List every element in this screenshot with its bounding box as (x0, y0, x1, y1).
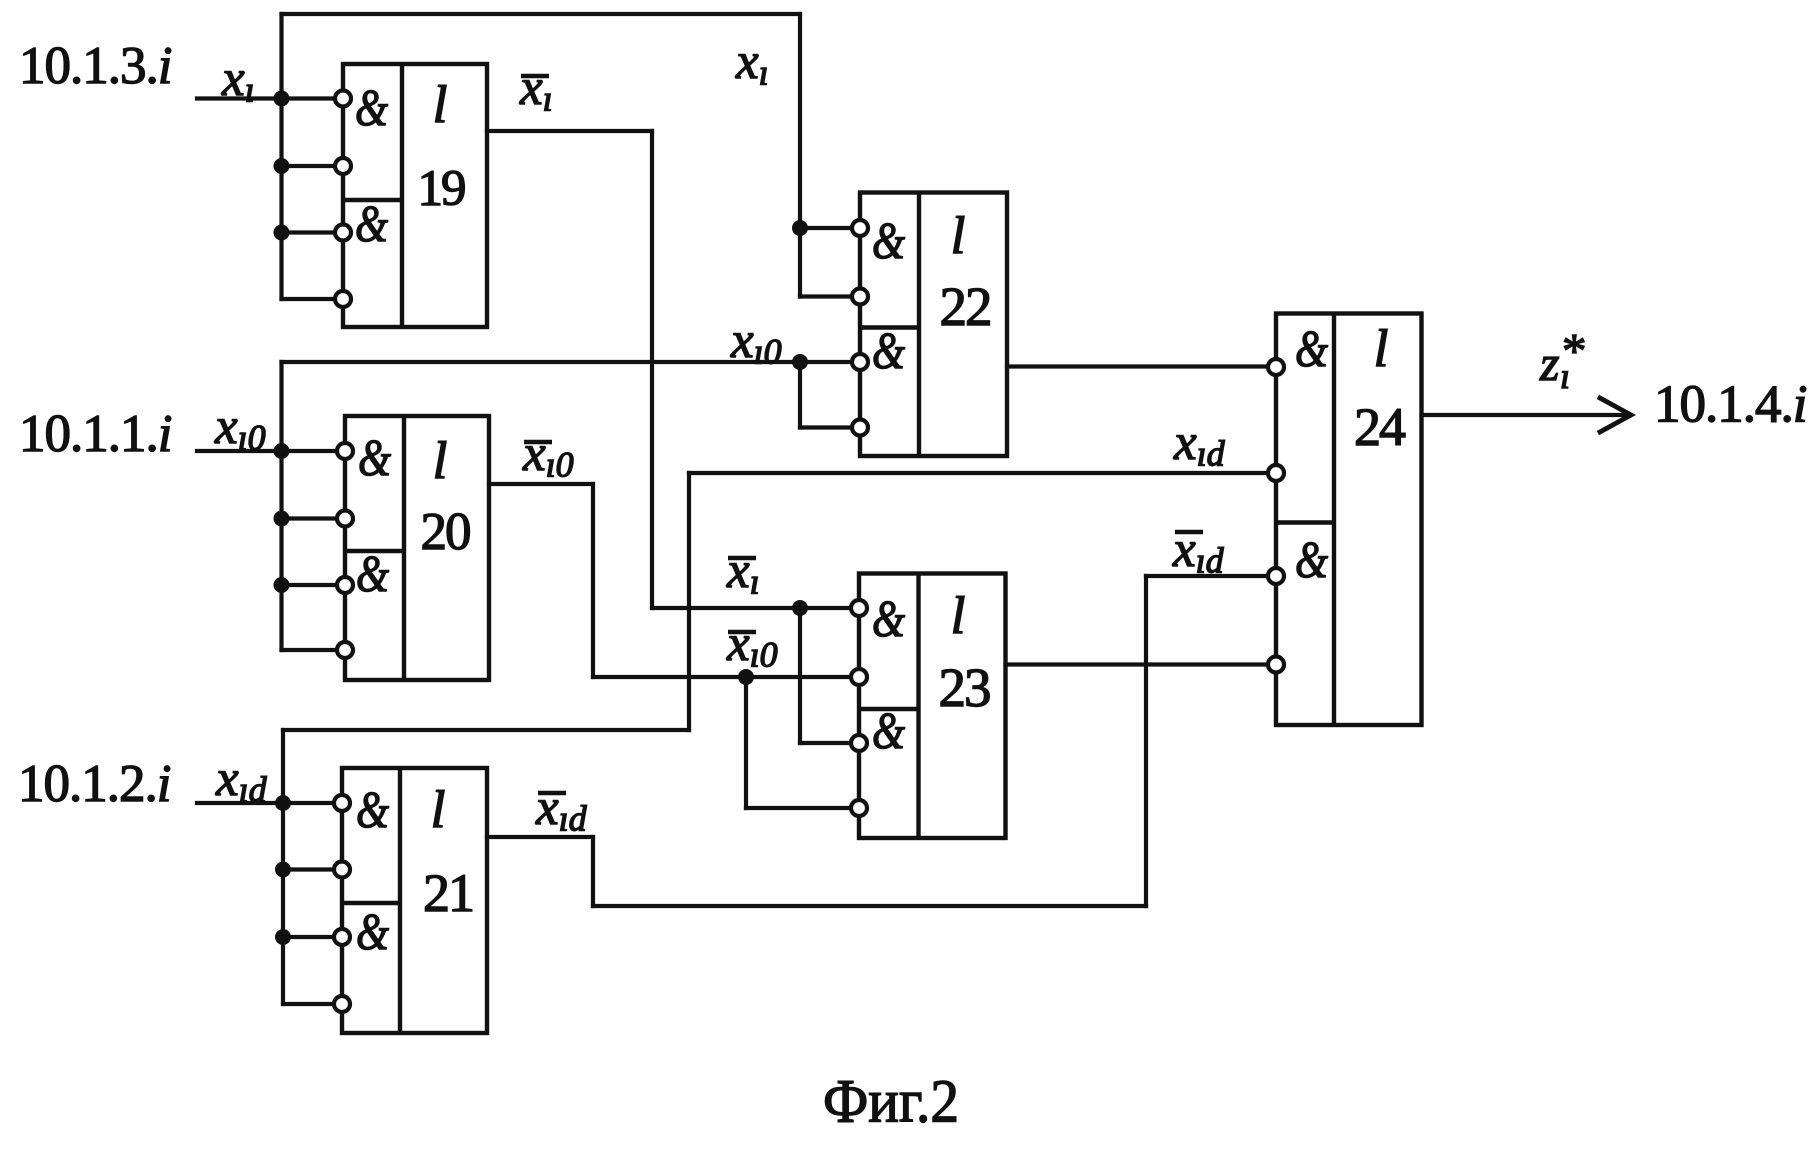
node junction dot: x_i bus / gate 19 pin 3 (274, 225, 290, 241)
gate 21: AND-OR logic element, box outline (342, 768, 487, 1033)
gate 19 pin 4 inversion bubble (335, 291, 351, 307)
gate 21 pin 4 inversion bubble (334, 996, 350, 1012)
wire net nx_i: elbow to gate 23 pin 3 (800, 741, 859, 745)
wire net x_i0: elbow to gate 20 pin 4 (282, 648, 346, 652)
wire net nx_id (inverted x_id): gate 21 output horizontal (487, 835, 593, 839)
gate 19: AND-OR logic element, box outline (343, 64, 487, 327)
wire net nx_i: vertical drop at x=800 below gate 23 pin 1 (798, 608, 802, 743)
gate 24 pin 2 inversion bubble (1268, 465, 1284, 481)
node junction dot: x_i drop / gate 22 pin 1 (792, 220, 808, 236)
gate 20 pin 3 inversion bubble (337, 577, 353, 593)
svg-text:l: l (433, 432, 448, 490)
wire net nx_i: vertical drop at x=652 (650, 131, 654, 608)
svg-text:l: l (431, 781, 446, 839)
gate 20 pin 2 inversion bubble (337, 511, 353, 527)
wire net x_id: vertical distribution bus at x=283 left of gate 21 (281, 730, 285, 1004)
wire net x_i: stub to gate 22 pin 1 (800, 226, 860, 230)
node junction dot: x_id bus / gate 21 pin 2 (275, 862, 291, 878)
wire net x_id: vertical rise at x=689 (687, 473, 691, 730)
svg-text:24: 24 (1354, 397, 1406, 457)
node junction dot: nx_i0 run / gate 23 pin 2 (738, 669, 754, 685)
wire net nx_i (inverted x_i): gate 19 output horizontal (487, 129, 652, 133)
svg-text:&: & (1295, 532, 1328, 589)
wire net x_id: horizontal run y=473 to gate 24 pin 2 (689, 471, 1276, 475)
wire net x_i0: stub to gate 20 pin 3 (282, 583, 346, 587)
wire net x_i0: vertical distribution bus at x=281.5 left of gate 20 (279, 362, 283, 650)
wire net x_i: vertical drop at x=800 into gate 22 (798, 14, 802, 297)
node junction dot: x_i0 bus / gate 20 pin 3 (274, 577, 290, 593)
wire net nx_id: horizontal run y=576 to gate 24 pin 3 (1146, 574, 1276, 578)
svg-text:23: 23 (939, 657, 991, 718)
svg-text:&: & (358, 430, 391, 487)
svg-text:20: 20 (421, 503, 471, 561)
svg-text:&: & (872, 323, 905, 380)
gate 23 pin 3 inversion bubble (851, 735, 867, 751)
gate 20 pin 4 inversion bubble (337, 642, 353, 658)
svg-text:l: l (1374, 320, 1389, 378)
gate 22 pin 4 inversion bubble (852, 420, 868, 436)
node junction dot: x_i bus / gate 19 pin 2 (274, 158, 290, 174)
gate 22 pin 2 inversion bubble (852, 289, 868, 305)
node junction dot: x_id bus / gate 21 pin 3 (275, 929, 291, 945)
wire net nx_id: vertical drop at x=593 (591, 837, 595, 906)
node junction dot: x_i bus / gate 19 pin 1 (274, 91, 290, 107)
svg-text:l: l (951, 587, 966, 645)
gate 24 pin 3 inversion bubble (1268, 568, 1284, 584)
svg-text:21: 21 (423, 863, 473, 923)
wire net x_i0: input horizontal from label 10.1.1.i to gate 20 pin 1 (197, 449, 345, 453)
gate 19 pin 1 inversion bubble (335, 91, 351, 107)
svg-text:22: 22 (940, 276, 991, 337)
wire net x_i: elbow to gate 19 pin 4 (282, 297, 344, 301)
wire net x_i: stub to gate 19 pin 3 (282, 230, 344, 234)
svg-text:&: & (356, 904, 389, 961)
node junction dot: x_id bus / gate 21 pin 1 (275, 795, 291, 811)
svg-text:&: & (872, 213, 905, 270)
wire output z_i* from gate 24 to node 10.1.4.i (1422, 413, 1629, 417)
wire net nx_i: horizontal run y=608 to gate 23 pin 1 (652, 606, 859, 610)
wire net nx_i0: vertical drop at x=593 (591, 484, 595, 677)
node junction dot: x_i0 bus / gate 20 pin 1 (274, 443, 290, 459)
svg-text:l: l (433, 76, 448, 134)
wire net x_i: vertical distribution bus at x=281.5 left of gate 19 (279, 14, 283, 299)
wire net x_i: top horizontal run to gate 22 (282, 12, 801, 16)
svg-text:&: & (872, 703, 905, 760)
wire net nx_i0: vertical drop at x=746 below gate 23 pin 2 (744, 677, 748, 808)
svg-text:&: & (356, 782, 389, 839)
svg-text:*: * (1562, 323, 1587, 378)
overbar of nx_id label at gate 21 output (538, 791, 566, 796)
gate 19 pin 2 inversion bubble (335, 158, 351, 174)
gate 23: AND-OR logic element, box outline (859, 574, 1006, 839)
gate 19 pin 3 inversion bubble (335, 225, 351, 241)
wire net x_i0: stub to gate 20 pin 2 (282, 516, 346, 520)
svg-text:z: z (1539, 335, 1559, 391)
wire net x_id: elbow to gate 21 pin 4 (283, 1002, 342, 1006)
wire net x_i0: vertical drop at x=800 below gate 22 pin 3 (798, 362, 802, 428)
wire net x_i: input horizontal from label 10.1.3.i to gate 19 pin 1 (197, 96, 343, 100)
gate 22 pin 3 inversion bubble (852, 354, 868, 370)
svg-text:19: 19 (418, 161, 466, 217)
wire net x_id: stub to gate 21 pin 2 (283, 867, 342, 871)
wire net nx_i0: horizontal run y=677 to gate 23 pin 2 (593, 675, 859, 679)
wire net x_i: elbow to gate 22 pin 2 (800, 294, 860, 298)
wire net x_id: input horizontal from label 10.1.2.i to gate 21 pin 1 (197, 801, 342, 805)
wire net x_i: stub to gate 19 pin 2 (282, 164, 344, 168)
overbar of nx_i label at gate 23 pin 1 (728, 556, 756, 561)
wire net x_id: horizontal run y=730 (283, 728, 689, 732)
gate 24 pin 4 inversion bubble (1268, 657, 1284, 673)
wire gate 23 output to gate 24 pin 4 (1006, 662, 1277, 666)
gate 21 pin 3 inversion bubble (334, 929, 350, 945)
wire net x_i0: horizontal run y=362 to gate 22 pin 3 (282, 360, 861, 364)
arrowhead of output z_i* (1600, 398, 1631, 432)
overbar of nx_i0 label at gate 23 pin 2 (728, 630, 756, 635)
svg-text:10.1.3.i: 10.1.3.i (19, 37, 172, 95)
node junction dot: nx_i run / gate 23 pin 1 (792, 600, 808, 616)
svg-text:&: & (1295, 321, 1328, 378)
svg-text:&: & (356, 546, 389, 603)
wire net nx_i0 (inverted x_i0): gate 20 output horizontal (489, 482, 593, 486)
overbar of nx_id label at gate 24 pin 3 (1175, 530, 1203, 535)
wire net nx_i0: elbow to gate 23 pin 4 (746, 806, 859, 810)
svg-text:10.1.4.i: 10.1.4.i (1654, 376, 1807, 434)
wire net nx_id: vertical rise at x=1146 (1144, 576, 1148, 906)
overbar of nx_i0 label at gate 20 output (524, 440, 552, 445)
svg-text:l: l (951, 207, 966, 265)
gate 21 pin 2 inversion bubble (334, 862, 350, 878)
wire net x_id: stub to gate 21 pin 3 (283, 935, 342, 939)
gate 23 pin 4 inversion bubble (851, 800, 867, 816)
svg-text:&: & (872, 591, 905, 648)
svg-text:10.1.2.i: 10.1.2.i (18, 755, 171, 813)
gate 20 pin 1 inversion bubble (337, 443, 353, 459)
svg-text:Фиг.2: Фиг.2 (823, 1069, 959, 1136)
gate 24 pin 1 inversion bubble (1268, 359, 1284, 375)
svg-text:&: & (355, 80, 388, 137)
svg-text:&: & (355, 196, 388, 253)
svg-text:10.1.1.i: 10.1.1.i (19, 405, 172, 463)
gate 24: AND-OR output logic element, box outline (1276, 314, 1422, 726)
gate 23 pin 1 inversion bubble (851, 600, 867, 616)
gate 22 pin 1 inversion bubble (852, 220, 868, 236)
node junction dot: x_i0 run / gate 22 pin 3 (792, 354, 808, 370)
gate 22: AND-OR logic element, box outline (860, 193, 1007, 457)
gate 20: AND-OR logic element, box outline (345, 416, 489, 680)
wire net nx_id: bottom horizontal run y=906 (593, 904, 1146, 908)
gate 21 pin 1 inversion bubble (334, 795, 350, 811)
node junction dot: x_i0 bus / gate 20 pin 2 (274, 511, 290, 527)
gate 23 pin 2 inversion bubble (851, 669, 867, 685)
wire net x_i0: elbow to gate 22 pin 4 (800, 425, 860, 429)
overbar of nx_i label at gate 19 output (521, 74, 549, 79)
wire gate 22 output to gate 24 pin 1 (1007, 364, 1276, 368)
